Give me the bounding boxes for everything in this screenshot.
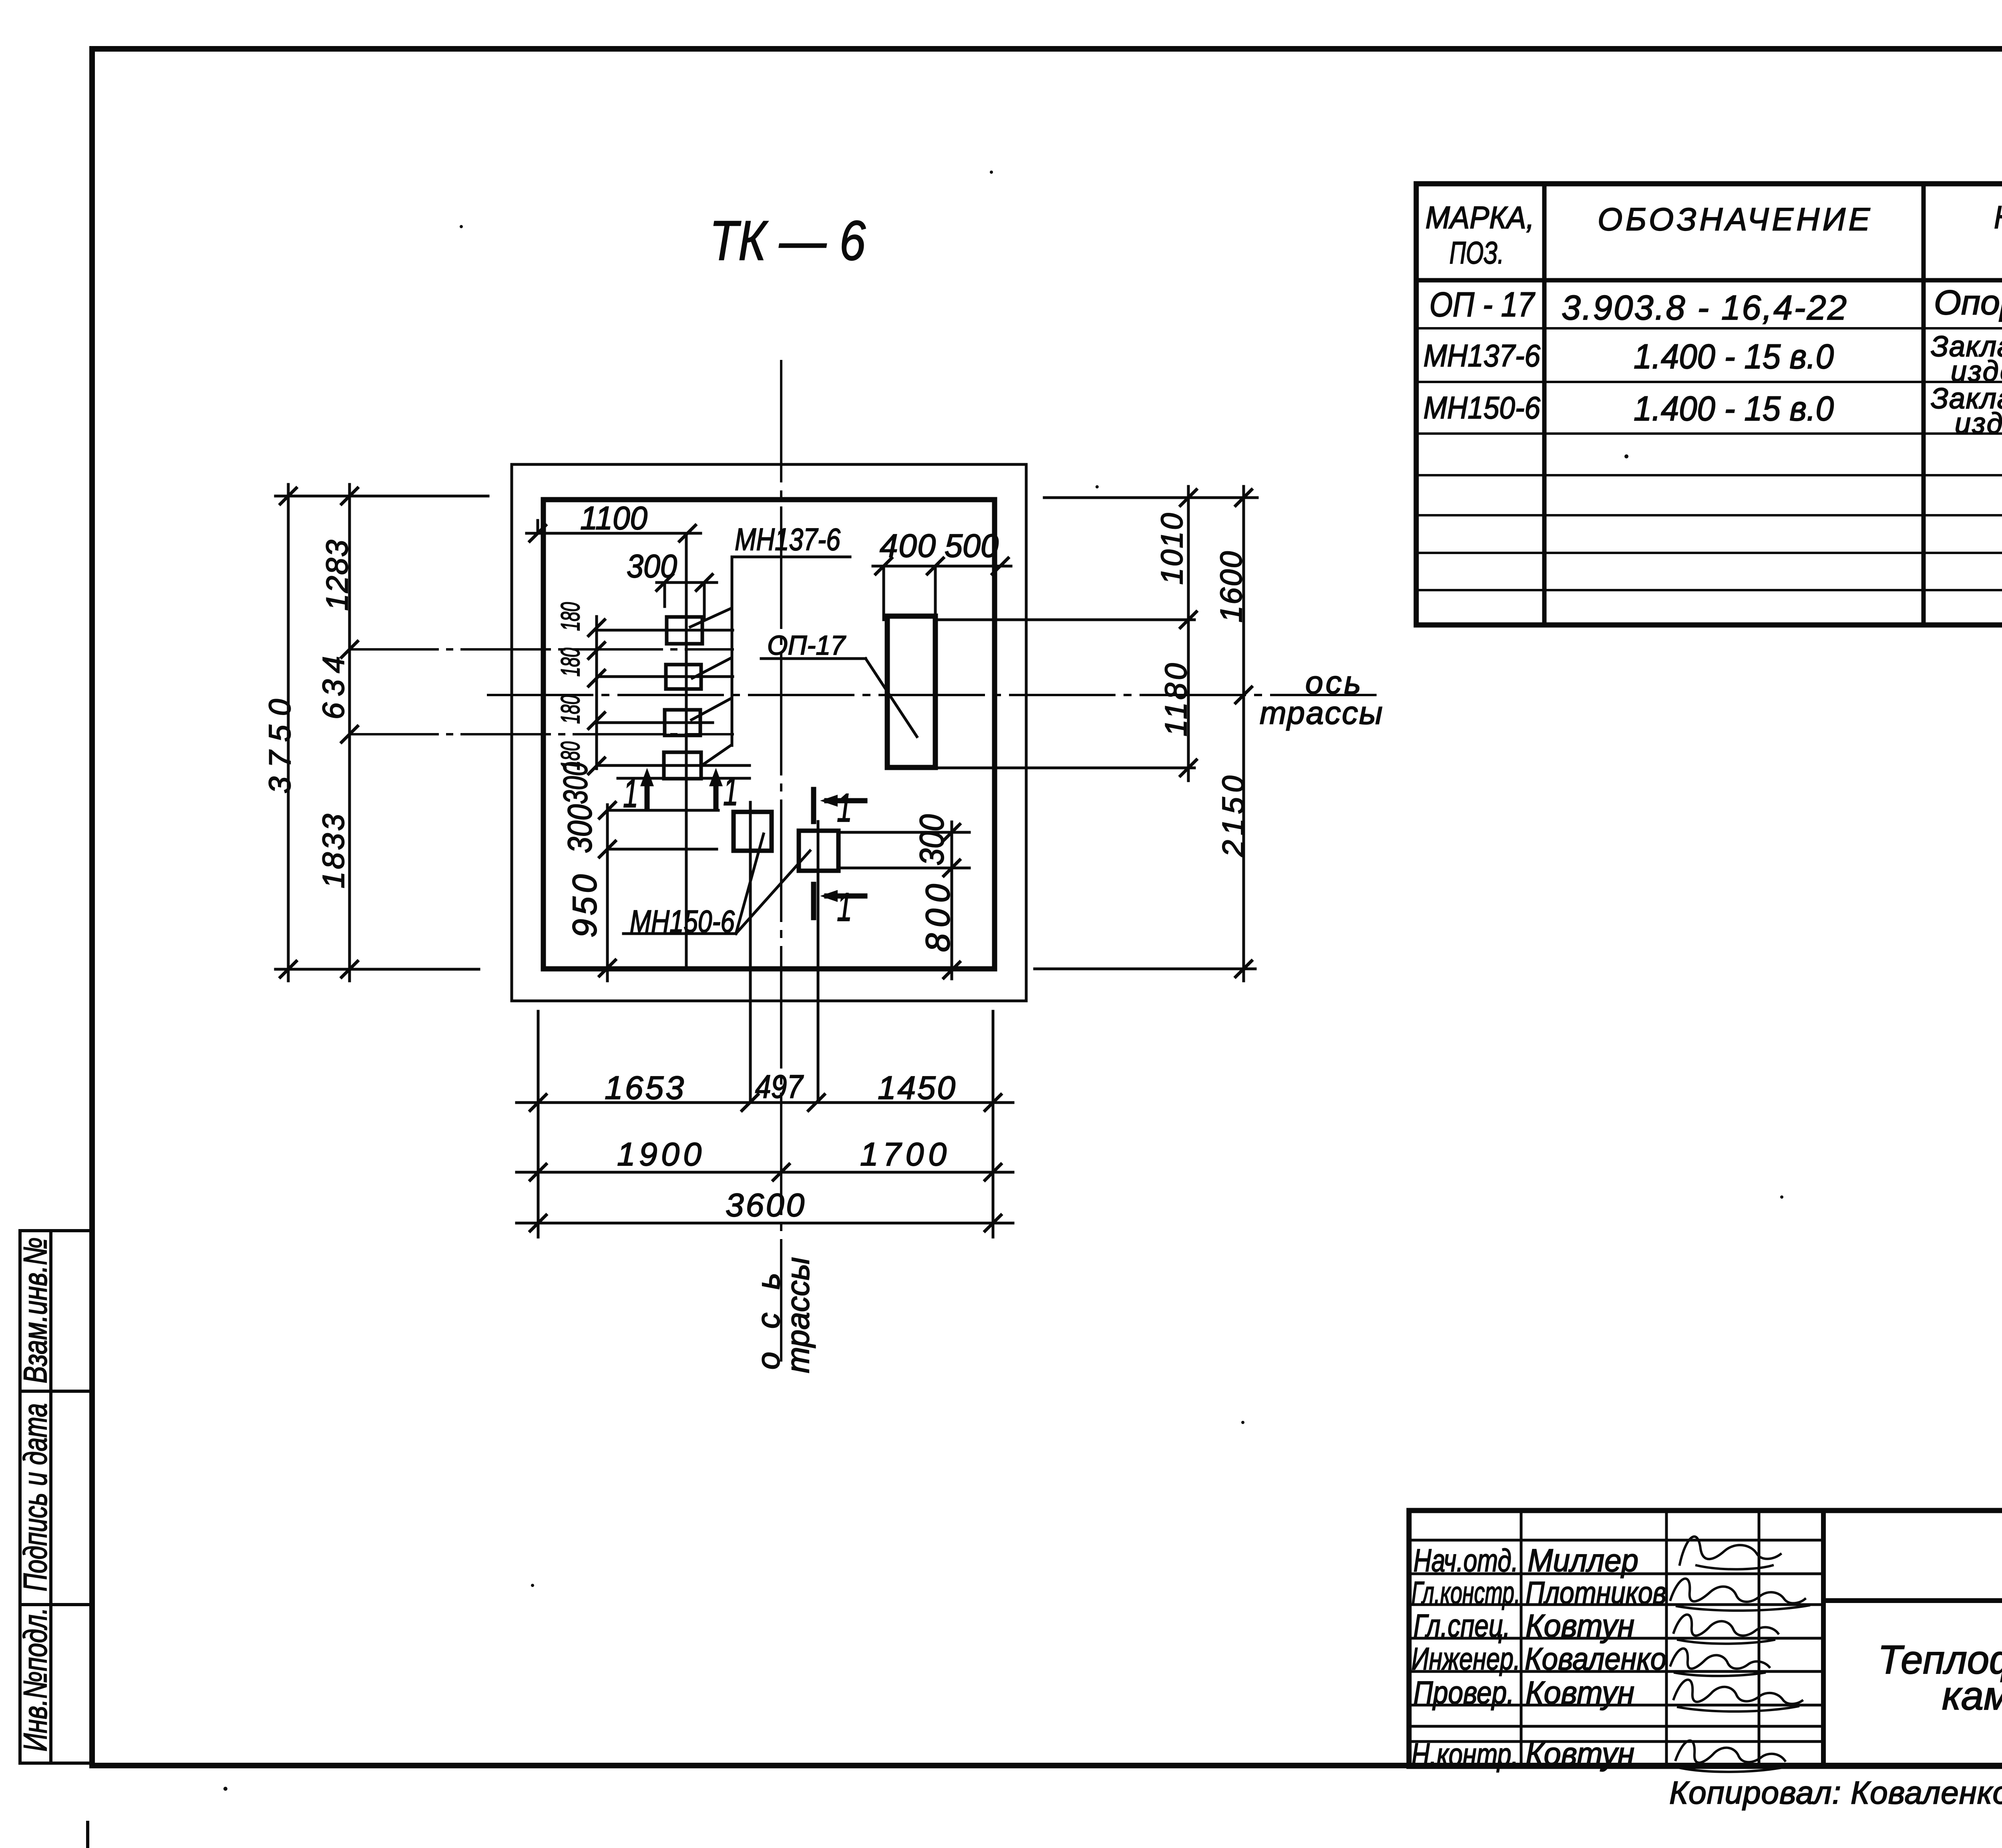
svg-text:Взам.инв.№: Взам.инв.№: [17, 1237, 54, 1384]
svg-text:Подпись и дата: Подпись и дата: [17, 1403, 54, 1591]
svg-text:300: 300: [561, 804, 599, 853]
svg-text:1180: 1180: [1159, 663, 1193, 737]
svg-text:МН137-6: МН137-6: [735, 522, 840, 557]
svg-text:МН137-6: МН137-6: [1423, 338, 1541, 373]
svg-text:400: 400: [880, 528, 936, 564]
svg-text:Опора: Опора: [1934, 283, 2002, 322]
svg-text:634: 634: [317, 656, 351, 719]
svg-text:трассы: трассы: [780, 1257, 816, 1373]
svg-text:1.400 - 15 в.0: 1.400 - 15 в.0: [1634, 337, 1834, 376]
svg-text:МН150-6: МН150-6: [1423, 390, 1541, 425]
svg-text:ОП-17: ОП-17: [767, 630, 846, 661]
svg-text:Гл.констр.: Гл.констр.: [1411, 1575, 1520, 1610]
svg-text:1: 1: [837, 785, 852, 830]
svg-text:камера ТК-6: камера ТК-6: [1942, 1673, 2002, 1718]
svg-text:НАИМЕНОВАНИЕ: НАИМЕНОВАНИЕ: [1994, 199, 2002, 235]
svg-text:Ковтун: Ковтун: [1526, 1608, 1634, 1643]
svg-text:180: 180: [555, 695, 585, 724]
svg-text:трассы: трассы: [1260, 695, 1383, 731]
svg-text:300: 300: [557, 762, 594, 804]
svg-text:1: 1: [837, 885, 852, 930]
svg-text:300: 300: [913, 814, 951, 866]
svg-text:3.903.8 - 16,4-22: 3.903.8 - 16,4-22: [1562, 289, 1847, 327]
svg-text:Провер.: Провер.: [1413, 1675, 1514, 1710]
svg-text:ОП - 17: ОП - 17: [1429, 285, 1536, 324]
svg-text:180: 180: [555, 648, 585, 677]
svg-text:Ковтун: Ковтун: [1526, 1675, 1634, 1710]
svg-text:Коваленко: Коваленко: [1525, 1641, 1666, 1676]
svg-text:1.400 - 15 в.0: 1.400 - 15 в.0: [1634, 390, 1834, 428]
svg-text:Н.контр.: Н.контр.: [1411, 1737, 1518, 1772]
svg-text:Инв.№подл.: Инв.№подл.: [17, 1607, 54, 1752]
svg-text:1: 1: [623, 771, 638, 816]
svg-text:500: 500: [945, 528, 999, 564]
svg-text:ТК — 6: ТК — 6: [710, 209, 866, 272]
svg-text:МАРКА,: МАРКА,: [1425, 200, 1534, 235]
svg-text:800: 800: [919, 884, 957, 952]
svg-text:Копировал: Коваленко: Копировал: Коваленко: [1669, 1775, 2002, 1810]
svg-text:Инженер.: Инженер.: [1411, 1641, 1520, 1676]
svg-text:950: 950: [566, 874, 603, 938]
svg-text:Ковтун: Ковтун: [1526, 1736, 1634, 1772]
svg-text:ПОЗ.: ПОЗ.: [1449, 235, 1504, 270]
svg-text:497: 497: [755, 1069, 804, 1105]
svg-text:изделие: изделие: [1955, 408, 2002, 440]
svg-text:300: 300: [627, 548, 677, 585]
svg-text:Миллер: Миллер: [1528, 1543, 1638, 1578]
svg-text:Нач.отд.: Нач.отд.: [1413, 1543, 1518, 1578]
svg-text:МН150-6: МН150-6: [630, 904, 735, 939]
svg-text:1: 1: [723, 769, 738, 814]
svg-text:180: 180: [555, 602, 585, 631]
svg-text:ОБОЗНАЧЕНИЕ: ОБОЗНАЧЕНИЕ: [1598, 201, 1871, 237]
svg-text:Плотников: Плотников: [1526, 1575, 1666, 1610]
svg-text:1100: 1100: [580, 500, 647, 536]
svg-text:Гл.спец.: Гл.спец.: [1413, 1608, 1510, 1643]
